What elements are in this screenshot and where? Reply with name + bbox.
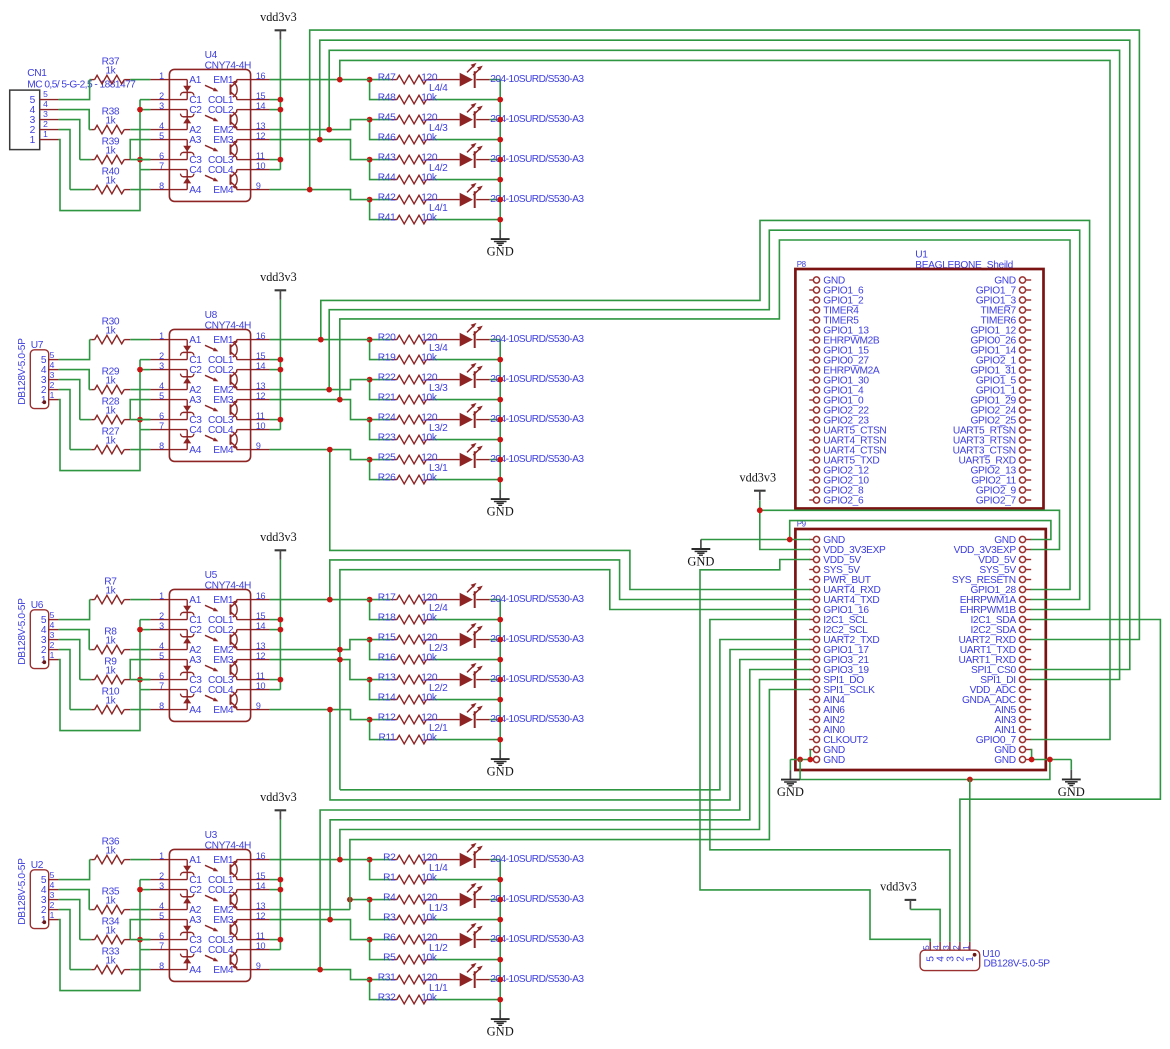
resistor R9 (1k) with leads [80, 679, 91, 681]
svg-text:R32: R32 [378, 992, 396, 1003]
junction GND at U10 pin1 branch [967, 777, 973, 783]
connector U7 pin 5 stub [49, 359, 59, 361]
U1 P8 right pin GPIO1_3 [1026, 299, 1032, 301]
svg-text:vdd3v3: vdd3v3 [880, 880, 917, 894]
svg-text:1k: 1k [105, 175, 116, 186]
svg-text:R23: R23 [378, 432, 396, 443]
svg-text:2: 2 [159, 871, 164, 881]
wire cathode common to opto pin2 [140, 359, 150, 361]
ground symbol (P9 bottom right) [1070, 770, 1072, 780]
opto U3 pin 11 stub (right) [251, 939, 270, 941]
U1 P9 left pin I2C1_SCL [809, 619, 813, 621]
resistor R7 (1k) with leads [90, 599, 92, 601]
wire opto pin9 to LED4 row [270, 710, 370, 720]
wire GND right pin jog [1031, 750, 1032, 760]
svg-text:A3: A3 [189, 915, 201, 926]
svg-text:204-10SURD/S530-A3: 204-10SURD/S530-A3 [490, 454, 584, 465]
opto U3 pin 2 stub (left) [150, 879, 169, 881]
resistor R10 (1k) with leads [70, 709, 91, 711]
svg-text:16: 16 [256, 591, 266, 601]
U1 P9 left pin VDD_5V [809, 559, 813, 561]
junction at R47 input [367, 77, 373, 83]
opto U3 phototransistor 2 [237, 909, 251, 911]
resistor R18 (10k) pulldown with branch wire [370, 600, 391, 620]
U1 P9 left pin AIN0 [809, 729, 813, 731]
svg-text:204-10SURD/S530-A3: 204-10SURD/S530-A3 [490, 114, 584, 125]
svg-text:GPIO2_6: GPIO2_6 [823, 496, 864, 507]
svg-text:120: 120 [421, 372, 438, 383]
junction cathode common C3 [137, 417, 143, 423]
resistor R47 (120) series [370, 79, 391, 81]
wire cathode common to opto pin6 [140, 679, 150, 681]
opto U3 pin 10 stub (right) [251, 949, 270, 951]
junction vdd rail pin14 [278, 107, 284, 113]
opto U8 pin 10 stub (right) [251, 429, 270, 431]
U1 P9 left pin GPIO3_19 [809, 669, 813, 671]
svg-text:1k: 1k [105, 635, 116, 646]
LED L4/4 symbol [460, 73, 473, 87]
wire cathode common to opto pin7 [140, 169, 150, 171]
U1 P8 right pin TIMER7 [1026, 309, 1032, 311]
power symbol vdd3v3 (block) [275, 549, 287, 551]
resistor R42 (120) series [370, 199, 391, 201]
resistor R26 (10k) pulldown with branch wire [370, 460, 391, 480]
junction LED2 row feed [347, 897, 353, 903]
svg-text:2: 2 [50, 380, 55, 390]
opto U5 pin 12 stub (right) [251, 659, 270, 661]
svg-text:14: 14 [256, 101, 266, 111]
LED L1/4 symbol [460, 853, 473, 867]
svg-text:204-10SURD/S530-A3: 204-10SURD/S530-A3 [490, 634, 584, 645]
U1 P9 left pin UART2_TXD [809, 639, 813, 641]
svg-text:R5: R5 [383, 952, 396, 963]
opto U8 pin 15 stub (right) [251, 359, 270, 361]
connector U10 pin 4 stub [939, 942, 941, 950]
svg-text:120: 120 [421, 72, 438, 83]
resistor R1 (10k) pulldown with branch wire [370, 860, 391, 880]
wire opto pin14 to vdd rail [270, 889, 281, 891]
power symbol vdd3v3 (P9) [754, 490, 766, 492]
junction block3 pin9 feed [327, 707, 333, 713]
wire opto pin10 to vdd rail [270, 949, 281, 951]
svg-text:R18: R18 [378, 612, 396, 623]
wire net VDD_5V (P9 - U10 pin5) [700, 560, 930, 942]
U1 P9 right pin SPI1_CS0 [1026, 669, 1032, 671]
wire LED GND rail [499, 600, 501, 750]
U1 P9 right pin GPIO1_28 [1026, 589, 1032, 591]
svg-text:12: 12 [256, 651, 266, 661]
opto U4 light arrow 3 [205, 145, 217, 150]
LED L2/4 symbol [460, 593, 473, 607]
wire net GPIO3_21 (block4 pin9 - P9) [320, 660, 810, 970]
wire cathode common to opto pin7 [140, 689, 150, 691]
svg-text:A3: A3 [189, 135, 201, 146]
svg-text:7: 7 [159, 941, 164, 951]
svg-text:10k: 10k [421, 432, 438, 443]
svg-text:COL4: COL4 [208, 165, 234, 176]
opto U3 pin 7 stub (left) [150, 949, 169, 951]
svg-text:4: 4 [159, 901, 164, 911]
svg-text:EM1: EM1 [213, 595, 234, 606]
connector U10 pin 1 stub [969, 942, 971, 950]
U1 P9 left pin AIN2 [809, 719, 813, 721]
U1 P8 right pin GPIO1_29 [1026, 399, 1032, 401]
svg-text:R48: R48 [378, 92, 396, 103]
svg-text:C2: C2 [189, 625, 202, 636]
svg-text:120: 120 [421, 712, 438, 723]
connector CN1 pin 5 stub [40, 99, 59, 101]
connector U7 pin 2 stub [49, 389, 59, 391]
connector U10 pin-1 marker [973, 953, 977, 957]
wire connector pin4 to R row2 [59, 630, 90, 650]
wire LED2 row stub [350, 899, 370, 901]
opto U8 phototransistor 4 [237, 449, 251, 451]
U1 P9 right pin EHRPWM1A [1026, 599, 1032, 601]
svg-text:1: 1 [50, 910, 55, 920]
junction at R32 output on GND rail [497, 997, 503, 1003]
svg-text:A1: A1 [189, 75, 201, 86]
svg-text:COL2: COL2 [208, 365, 234, 376]
junction vdd rail pin11 [278, 937, 284, 943]
wire opto pin9 to LED4 row [270, 190, 370, 200]
resistor R28 (1k) with leads [80, 419, 91, 421]
svg-text:12: 12 [256, 131, 266, 141]
junction of LED L2/3 cathode on GND rail [497, 637, 503, 643]
U1 P8 left pin EHRPWM2B [809, 339, 813, 341]
junction block1 pin12 feed [317, 137, 323, 143]
opto U4 phototransistor 1 [237, 79, 251, 81]
wire connector pin1 to cathode common [59, 660, 140, 731]
svg-text:16: 16 [256, 851, 266, 861]
junction of LED L4/3 cathode on GND rail [497, 117, 503, 123]
U1 P8 right pin GPIO1_5 [1026, 379, 1032, 381]
svg-text:15: 15 [256, 611, 266, 621]
wire net GND P9 loop top [790, 521, 1051, 540]
opto U3 pin 8 stub (left) [150, 969, 169, 971]
opto U5 phototransistor 2 [237, 649, 251, 651]
svg-text:1k: 1k [105, 435, 116, 446]
opto U5 internal LED 1 [169, 599, 187, 601]
wire connector pin4 to R row2 [59, 370, 90, 390]
svg-text:1k: 1k [105, 845, 116, 856]
opto U4 light arrow 1 [205, 85, 217, 90]
svg-text:5: 5 [159, 391, 164, 401]
svg-text:C4: C4 [189, 685, 202, 696]
resistor R32 (10k) pulldown with branch wire [370, 980, 391, 1000]
resistor R15 (120) series [370, 639, 391, 641]
svg-text:vdd3v3: vdd3v3 [260, 530, 297, 544]
svg-text:vdd3v3: vdd3v3 [260, 790, 297, 804]
svg-text:1: 1 [159, 851, 164, 861]
svg-text:1k: 1k [105, 895, 116, 906]
junction block1 pin13 feed [326, 127, 332, 133]
U1 P8 right pin GPIO1_31 [1026, 369, 1032, 371]
U1 P8 right pin UART3_CTSN [1026, 449, 1032, 451]
svg-text:16: 16 [256, 331, 266, 341]
opto U4 pin 4 stub (left) [150, 129, 169, 131]
opto U4 phototransistor 4 [237, 189, 251, 191]
connector U2 body [30, 870, 48, 929]
svg-text:1k: 1k [105, 585, 116, 596]
junction at R18 output on GND rail [497, 617, 503, 623]
svg-text:15: 15 [256, 871, 266, 881]
svg-text:3: 3 [159, 361, 164, 371]
svg-text:6: 6 [159, 671, 164, 681]
connector CN1 body [10, 90, 40, 150]
connector U2 pin 2 stub [49, 909, 59, 911]
svg-text:120: 120 [421, 592, 438, 603]
U1 P8 left pin GPIO2_23 [809, 419, 813, 421]
svg-text:U2: U2 [31, 860, 44, 871]
junction cathode common C2 [137, 887, 143, 893]
wire connector pin2 to R row4 [59, 130, 70, 190]
svg-text:3: 3 [50, 370, 55, 380]
ground symbol (LED column) [499, 750, 501, 760]
wire opto pin11 to vdd rail [270, 159, 281, 161]
junction at R42 input [367, 197, 373, 203]
wire cathode common to opto pin6 [140, 419, 150, 421]
svg-text:14: 14 [256, 621, 266, 631]
wire GND to U10 pin1 [969, 780, 971, 942]
resistor R19 (10k) pulldown with branch wire [370, 340, 391, 360]
wire net GND P9 loop [701, 539, 810, 541]
opto U8 pin 16 stub (right) [251, 339, 270, 341]
opto U8 pin 2 stub (left) [150, 359, 169, 361]
resistor R14 (10k) pulldown with branch wire [370, 680, 391, 700]
opto U4 pin 9 stub (right) [251, 189, 270, 191]
wire opto pin13 to LED2 row [270, 380, 370, 390]
wire opto pin12 to LED3 row [270, 400, 370, 420]
svg-text:120: 120 [421, 852, 438, 863]
svg-text:4: 4 [159, 121, 164, 131]
svg-text:120: 120 [421, 932, 438, 943]
svg-text:9: 9 [256, 441, 261, 451]
opto U5 pin 15 stub (right) [251, 619, 270, 621]
wire opto pin15 to vdd rail [270, 619, 281, 621]
svg-text:C4: C4 [189, 425, 202, 436]
wire connector pin5 to R row1 [59, 340, 90, 360]
wire cathode common vertical [139, 100, 141, 170]
wire net SPI1_DI (block1 pin13 - P9) [329, 50, 1119, 679]
wire LED GND rail [499, 860, 501, 1010]
svg-text:1k: 1k [105, 695, 116, 706]
svg-text:1k: 1k [105, 115, 116, 126]
svg-text:1k: 1k [105, 325, 116, 336]
junction of LED L3/3 cathode on GND rail [497, 377, 503, 383]
wire connector pin4 to R row2 [59, 110, 90, 130]
svg-text:2: 2 [159, 611, 164, 621]
U1 P9 left pin UART4_RXD [809, 589, 813, 591]
svg-text:120: 120 [421, 972, 438, 983]
ground symbol (LED column) [499, 1010, 501, 1020]
wire connector pin3 to R row3 [59, 120, 80, 160]
svg-text:R19: R19 [378, 352, 396, 363]
junction block3 pin16 feed [327, 597, 333, 603]
U1 P9 left pin PWR_BUT [809, 579, 813, 581]
svg-text:P8: P8 [797, 260, 807, 269]
svg-text:204-10SURD/S530-A3: 204-10SURD/S530-A3 [490, 194, 584, 205]
svg-text:CNY74-4H: CNY74-4H [205, 60, 251, 71]
opto U5 pin 16 stub (right) [251, 599, 270, 601]
wire connector pin1 to cathode common [59, 140, 140, 211]
wire net EHRPWM1A (block2 pin13 - P9) [329, 230, 1079, 599]
U1 P8 left pin GPIO0_27 [809, 359, 813, 361]
wire cathode common to opto pin6 [140, 939, 150, 941]
svg-text:A1: A1 [189, 335, 201, 346]
svg-text:1k: 1k [105, 665, 116, 676]
svg-text:120: 120 [421, 412, 438, 423]
U1 P9 right pin GPIO0_7 [1026, 739, 1032, 741]
opto U8 pin 3 stub (left) [150, 369, 169, 371]
LED L2/3 symbol [460, 633, 473, 647]
U1 P8 left pin GPIO1_4 [809, 389, 813, 391]
wire net I2C1_SDA (P9 - U10 pin2) [960, 620, 1161, 942]
svg-text:C2: C2 [189, 885, 202, 896]
junction at R46 output on GND rail [497, 137, 503, 143]
opto U5 pin 13 stub (right) [251, 649, 270, 651]
wire opto pin14 to vdd rail [270, 109, 281, 111]
svg-text:A1: A1 [189, 595, 201, 606]
svg-text:vdd3v3: vdd3v3 [260, 270, 297, 284]
junction at R15 input [367, 637, 373, 643]
LED L1/2 symbol [460, 933, 473, 947]
svg-text:10k: 10k [421, 92, 438, 103]
wire opto pin16 row to LED1 [270, 859, 370, 861]
svg-text:14: 14 [256, 361, 266, 371]
junction block3 pin13 feed [337, 647, 343, 653]
svg-text:10: 10 [256, 941, 266, 951]
wire connector pin2 to R row4 [59, 910, 70, 970]
svg-text:120: 120 [421, 632, 438, 643]
opto U4 pin 13 stub (right) [251, 129, 270, 131]
opto U8 pin 8 stub (left) [150, 449, 169, 451]
opto U5 pin 2 stub (left) [150, 619, 169, 621]
opto U4 pin 16 stub (right) [251, 79, 270, 81]
svg-text:204-10SURD/S530-A3: 204-10SURD/S530-A3 [490, 334, 584, 345]
svg-text:R25: R25 [378, 452, 396, 463]
wire cathode common vertical [139, 360, 141, 430]
opto U5 light arrow 2 [205, 635, 217, 640]
opto U8 phototransistor 1 [237, 339, 251, 341]
svg-text:EM3: EM3 [213, 135, 234, 146]
svg-text:1: 1 [961, 945, 971, 950]
svg-text:11: 11 [256, 411, 265, 421]
power symbol vdd3v3 (block) [275, 289, 287, 291]
junction cathode common C3 [137, 677, 143, 683]
U1 P8 right pin GPIO1_7 [1026, 289, 1032, 291]
junction at R5 output on GND rail [497, 957, 503, 963]
svg-text:10k: 10k [421, 732, 438, 743]
junction at R48 output on GND rail [497, 97, 503, 103]
ground symbol (LED column) [499, 230, 501, 240]
wire opto pin11 to vdd rail [270, 679, 281, 681]
opto U5 phototransistor 3 [237, 659, 251, 661]
junction at R16 output on GND rail [497, 657, 503, 663]
opto U3 pin 4 stub (left) [150, 909, 169, 911]
U1 P8 left pin GPIO1_13 [809, 329, 813, 331]
resistor R12 (120) series [370, 719, 391, 721]
U1 P8 right pin UART5_RXD [1026, 459, 1032, 461]
opto U8 pin 14 stub (right) [251, 369, 270, 371]
resistor R46 (10k) pulldown with branch wire [370, 120, 391, 140]
svg-text:13: 13 [256, 381, 266, 391]
junction GND right [1029, 757, 1035, 763]
resistor R37 (1k) with leads [90, 79, 92, 81]
wire vdd3v3 rail [279, 40, 281, 170]
power symbol vdd3v3 (block) [275, 809, 287, 811]
junction cathode common C2 [137, 627, 143, 633]
power symbol vdd3v3 (U10) [905, 899, 917, 901]
junction at R1 output on GND rail [497, 877, 503, 883]
U1 P9 left pin GPIO1_17 [809, 649, 813, 651]
connector U6 pin 1 stub [49, 659, 59, 661]
LED L2/1 symbol [460, 713, 473, 727]
resistor R39 (1k) with leads [80, 159, 91, 161]
opto U4 pin 15 stub (right) [251, 99, 270, 101]
wire LED GND rail [499, 340, 501, 490]
U1 P8 right pin GPIO2_24 [1026, 409, 1032, 411]
svg-text:R31: R31 [378, 972, 396, 983]
U1 P9 right pin GND [1026, 539, 1032, 541]
U1 P8 left pin UART5_CTSN [809, 429, 813, 431]
junction vdd rail pin15 [278, 617, 284, 623]
junction vdd rail pin11 [278, 677, 284, 683]
wire net GPIO0_7 (block1 pin16 - P9) [340, 60, 1110, 739]
junction of LED L1/1 cathode on GND rail [497, 977, 503, 983]
wire connector pin3 to R row3 [59, 380, 80, 420]
resistor R2 (120) series [370, 859, 391, 861]
connector U2 pin-1 marker [42, 920, 46, 924]
svg-text:R45: R45 [378, 112, 396, 123]
opto U5 pin 1 stub (left) [150, 599, 169, 601]
resistor R35 (1k) with leads [89, 909, 91, 911]
svg-text:CNY74-4H: CNY74-4H [205, 320, 251, 331]
svg-text:A3: A3 [189, 395, 201, 406]
opto U4 pin 1 stub (left) [150, 79, 169, 81]
resistor R29 (1k) with leads [89, 389, 91, 391]
opto U3 light arrow 3 [205, 925, 217, 930]
svg-text:204-10SURD/S530-A3: 204-10SURD/S530-A3 [490, 74, 584, 85]
opto U5 pin 5 stub (left) [150, 659, 169, 661]
U1 P9 left pin GPIO1_16 [809, 609, 813, 611]
junction at R17 input [367, 597, 373, 603]
wire net vdd3v3 to VDD_3V3EXP left [760, 500, 811, 549]
U1 P8 right pin GPIO2_25 [1026, 419, 1032, 421]
U1 P9 left pin SPI1_DO [809, 679, 813, 681]
wire connector pin1 to cathode common [59, 400, 140, 471]
svg-text:COL2: COL2 [208, 885, 234, 896]
LED L4/1 symbol [460, 193, 473, 207]
opto U8 pin 1 stub (left) [150, 339, 169, 341]
wire GND right drop to symbol [1070, 760, 1072, 770]
resistor R33 (1k) with leads [70, 969, 91, 971]
resistor R11 (10k) pulldown with branch wire [370, 720, 391, 740]
resistor R45 (120) series [370, 119, 391, 121]
U1 P9 right pin UART1_RXD [1026, 659, 1032, 661]
wire vdd3v3 rail [279, 560, 281, 690]
junction vdd rail pin11 [278, 157, 284, 163]
junction vdd rail pin15 [278, 877, 284, 883]
svg-text:1: 1 [965, 956, 976, 962]
svg-text:R3: R3 [383, 912, 396, 923]
svg-text:R12: R12 [378, 712, 396, 723]
svg-text:4: 4 [159, 641, 164, 651]
U1 P8 left pin UART4_RTSN [809, 439, 813, 441]
svg-text:3: 3 [50, 630, 55, 640]
resistor R25 (120) series [370, 459, 391, 461]
svg-text:10: 10 [256, 681, 266, 691]
opto U5 pin 4 stub (left) [150, 649, 169, 651]
